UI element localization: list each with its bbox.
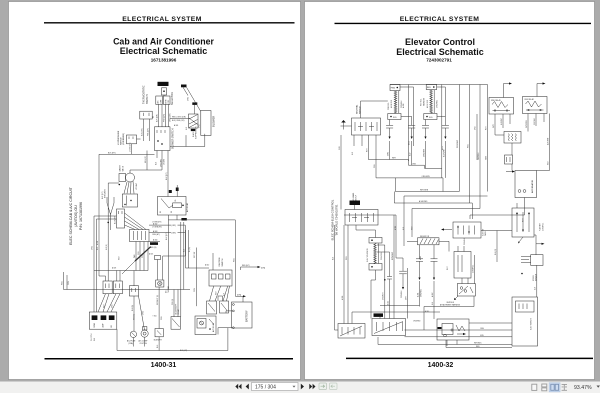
svg-text:ORG/GRN: ORG/GRN [422,176,431,178]
svg-text:SELECTOR: SELECTOR [171,92,174,105]
svg-text:GRY/RED: GRY/RED [526,120,528,128]
svg-text:RED/WHT (S): RED/WHT (S) [157,295,159,305]
svg-text:BLK | RED (OR): BLK | RED (OR) [172,120,185,122]
svg-text:(OVERRIDE): (OVERRIDE) [123,133,125,145]
svg-text:ELEV SWITCH: ELEV SWITCH [530,318,532,330]
svg-text:REV RELAY: REV RELAY [525,98,535,101]
svg-text:86: 86 [160,211,162,213]
svg-text:BRN (REF): BRN (REF) [105,189,107,198]
svg-text:GRN/WHT: GRN/WHT [423,149,425,157]
svg-text:SPEED: SPEED [533,274,535,281]
svg-text:LT GRN (HT): LT GRN (HT) [129,142,131,152]
svg-text:BLK (S): BLK (S) [106,244,108,250]
svg-text:PNK (OR): PNK (OR) [147,128,149,136]
svg-text:SWITCH: SWITCH [146,94,149,104]
svg-text:CONTROL: CONTROL [542,223,544,231]
svg-text:HTR: HTR [165,99,167,104]
svg-text:RESISTOR: RESISTOR [420,236,430,238]
svg-text:ALT WHT: ALT WHT [546,138,549,145]
svg-text:REV SOL: REV SOL [421,99,423,106]
svg-text:SWITCH: SWITCH [222,258,224,266]
svg-text:Electrical Schematic: Electrical Schematic [396,47,484,57]
svg-text:ORG: ORG [68,280,70,285]
svg-text:PPL: PPL [142,255,144,258]
svg-text:SW: SW [94,338,96,341]
svg-text:S/N 584001: S/N 584001 [353,192,355,201]
svg-text:175 / 304: 175 / 304 [255,385,276,391]
svg-text:Elevator Control: Elevator Control [405,37,475,47]
svg-text:93.47%: 93.47% [574,385,592,391]
svg-text:Cab and Air Conditioner: Cab and Air Conditioner [113,37,214,47]
svg-text:WHT: WHT [522,218,524,222]
svg-text:A/C RELAY: A/C RELAY [186,202,189,212]
svg-text:BLOWER: BLOWER [211,116,215,127]
svg-text:RED (HT): RED (HT) [242,265,250,267]
svg-text:Electrical Schematic: Electrical Schematic [120,46,208,56]
svg-text:ORG: ORG [480,328,485,330]
svg-text:'98 WORLD 7243002791: '98 WORLD 7243002791 [334,204,338,236]
svg-text:ELECTRICAL SYSTEM: ELECTRICAL SYSTEM [400,16,480,23]
svg-text:ELEV SOLENOID: ELEV SOLENOID [367,248,369,262]
svg-text:(AVITOS) OU: (AVITOS) OU [74,205,78,227]
svg-text:1400-32: 1400-32 [428,362,454,369]
svg-text:WATER: WATER [119,165,122,172]
svg-text:T 350: T 350 [153,316,157,318]
svg-text:B+ (OR): B+ (OR) [150,243,157,245]
svg-text:HARNESS: HARNESS [422,97,425,106]
svg-text:BLK/WHT: BLK/WHT [154,339,163,341]
svg-text:WHT/GRN: WHT/GRN [420,190,429,192]
svg-text:ORG: ORG [412,163,417,165]
svg-text:BLU (S): BLU (S) [132,305,134,311]
svg-text:ORG: ORG [142,310,144,315]
svg-text:SOL: SOL [393,117,397,119]
svg-text:BRN/WHT: BRN/WHT [392,252,394,260]
svg-text:WHT: WHT [485,126,487,130]
svg-text:FLASHER: FLASHER [539,222,542,231]
svg-text:BRN (HT): BRN (HT) [145,156,147,163]
svg-text:A 303: A 303 [153,230,157,233]
svg-text:IGNITION: IGNITION [219,257,221,266]
svg-text:ORG/BLK: ORG/BLK [464,237,466,245]
svg-text:(OR): (OR) [172,233,176,235]
svg-text:VALVE: VALVE [121,165,124,171]
svg-text:LT GRN (HT): LT GRN (HT) [152,227,162,229]
svg-text:7243002791: 7243002791 [426,57,452,62]
svg-text:A 344 RED: A 344 RED [419,200,428,203]
svg-text:A 301: A 301 [174,124,178,127]
svg-text:A 410: A 410 [402,104,405,108]
svg-text:BLK (OR): BLK (OR) [141,128,143,136]
svg-text:CLUTCH: CLUTCH [91,333,93,341]
svg-text:ALTERNATOR: ALTERNATOR [531,179,534,193]
svg-text:85: 85 [175,200,177,202]
svg-text:KEY SW: KEY SW [194,251,196,258]
svg-text:1400-31: 1400-31 [151,362,177,369]
svg-text:ATTACHMENT HARNESS: ATTACHMENT HARNESS [440,304,461,307]
svg-text:BLK (HT): BLK (HT) [166,232,168,240]
svg-text:A 361: A 361 [416,293,419,297]
svg-text:RED (S): RED (S) [134,314,136,320]
svg-text:ORG (HT): ORG (HT) [152,234,160,236]
svg-text:WHT: WHT [485,156,487,160]
svg-text:1671381996: 1671381996 [151,57,177,62]
svg-text:BLK/WHT: BLK/WHT [501,118,503,125]
svg-text:ELEC SCHEM-CAB & A/C CIRCUIT: ELEC SCHEM-CAB & A/C CIRCUIT [69,186,73,245]
svg-text:ELECTRICAL SYSTEM: ELECTRICAL SYSTEM [122,16,202,23]
svg-text:BLK (OR): BLK (OR) [156,114,158,122]
svg-text:30: 30 [171,211,173,213]
svg-text:WHT/BLK: WHT/BLK [478,152,480,160]
svg-text:ELEV SW: ELEV SW [482,228,484,236]
svg-text:ORG/RED: ORG/RED [413,320,421,322]
svg-text:ORG: ORG [194,287,196,292]
svg-text:FWD SOL: FWD SOL [388,102,390,110]
svg-text:ORG: ORG [188,96,190,101]
svg-text:GRY/BLK: GRY/BLK [534,117,536,125]
svg-text:RED | ORG (OR): RED | ORG (OR) [172,116,186,118]
svg-text:BLK (HT): BLK (HT) [180,350,187,352]
svg-text:BLOWER: BLOWER [114,216,116,224]
svg-text:PNK (OR): PNK (OR) [163,114,165,122]
svg-text:THERMO: THERMO [168,285,170,293]
svg-text:ORG/RED: ORG/RED [437,99,439,108]
svg-text:(OR): (OR) [172,225,176,227]
svg-text:LT GRN (HT): LT GRN (HT) [152,222,162,224]
svg-text:BLACK: BLACK [192,131,195,137]
svg-text:SOL: SOL [429,117,433,119]
svg-text:RELAY: RELAY [177,308,180,314]
svg-text:CLUTCH: CLUTCH [140,343,148,345]
svg-text:BLOWER SWITCH: BLOWER SWITCH [171,128,174,149]
svg-text:ORG/GRN: ORG/GRN [381,252,383,260]
svg-text:LT GRN: LT GRN [163,158,165,165]
svg-text:WHT/BLK: WHT/BLK [474,343,482,345]
svg-text:DOME: DOME [94,323,96,328]
svg-text:WHT/BLK: WHT/BLK [447,302,455,304]
svg-text:NEUTRAL: NEUTRAL [356,104,359,114]
svg-text:FWD RELAY: FWD RELAY [491,99,502,102]
svg-text:GRN/RED: GRN/RED [420,288,422,297]
svg-text:B+ (S): B+ (S) [189,247,191,252]
svg-text:BLK (HT): BLK (HT) [166,172,168,180]
svg-text:CONTROL: CONTROL [472,265,474,273]
svg-text:BATTERY: BATTERY [244,310,248,322]
svg-text:WHT: WHT [366,148,368,152]
svg-text:A/C RELAY: A/C RELAY [212,322,215,332]
svg-text:BLK (R): BLK (R) [495,249,497,255]
svg-text:FWD: FWD [391,87,396,89]
svg-text:SUPPRESSOR: SUPPRESSOR [196,126,198,139]
svg-text:BLK (HT): BLK (HT) [108,152,116,154]
svg-text:ORG: ORG [91,245,93,250]
svg-text:RED/WHT: RED/WHT [457,140,459,148]
svg-text:ORG (S): ORG (S) [172,298,174,305]
svg-text:A 362: A 362 [431,293,434,297]
svg-text:ORG/BLK: ORG/BLK [401,290,403,298]
svg-text:(15A): (15A) [129,342,134,345]
svg-text:RED (S): RED (S) [150,247,157,249]
svg-text:WHT: WHT [447,266,449,270]
svg-text:A 304: A 304 [153,239,157,242]
svg-text:(OR): (OR) [261,267,265,269]
svg-text:BLU/WHT: BLU/WHT [443,149,445,157]
svg-text:HTR A/C: HTR A/C [135,182,138,190]
svg-text:P/N: 1671381996: P/N: 1671381996 [79,202,83,230]
svg-text:WHT: WHT [392,158,396,160]
svg-text:GRN/WHT: GRN/WHT [383,292,385,300]
